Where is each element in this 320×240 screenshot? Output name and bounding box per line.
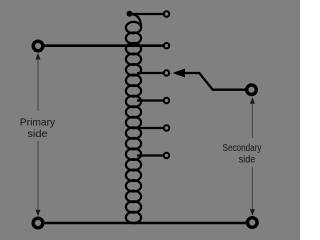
- svg-text:side: side: [27, 129, 47, 140]
- svg-text:side: side: [239, 155, 256, 166]
- svg-text:Primary: Primary: [20, 117, 56, 128]
- svg-text:Secondary: Secondary: [223, 143, 263, 154]
